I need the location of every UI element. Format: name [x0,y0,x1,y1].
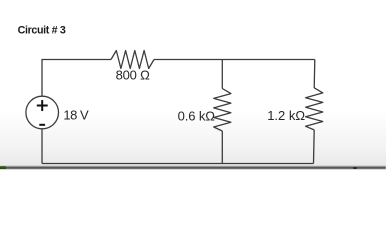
svg-text:Circuit # 3: Circuit # 3 [18,25,66,37]
resistor R1 800 ohm zigzag [111,51,154,69]
bottom dark bar [0,166,386,169]
resistor R3 1.2 kohm zigzag [306,88,323,130]
wire middle vertical upper [221,60,223,89]
svg-text:0.6 kΩ: 0.6 kΩ [178,109,216,124]
wire right vertical upper [313,60,316,89]
wire top-left horizontal segment [42,59,111,61]
wire top-right horizontal segment [154,59,315,61]
slide bottom gradient [0,112,386,166]
green taskbar segment [0,166,6,169]
svg-text:800 Ω: 800 Ω [116,68,151,83]
voltage source minus sign [39,124,45,126]
dark dot on bottom bar [353,167,357,170]
voltage source V1 circle [26,96,59,129]
svg-text:18 V: 18 V [63,107,89,122]
wire middle vertical lower [221,131,223,164]
wire right vertical lower [313,130,316,164]
wire bottom horizontal [42,163,314,165]
svg-text:1.2 kΩ: 1.2 kΩ [267,108,305,123]
wire left vertical lower [41,129,43,164]
resistor R2 0.6 kohm zigzag [214,89,231,132]
voltage source plus sign [37,100,48,111]
wire left vertical upper [41,59,43,96]
